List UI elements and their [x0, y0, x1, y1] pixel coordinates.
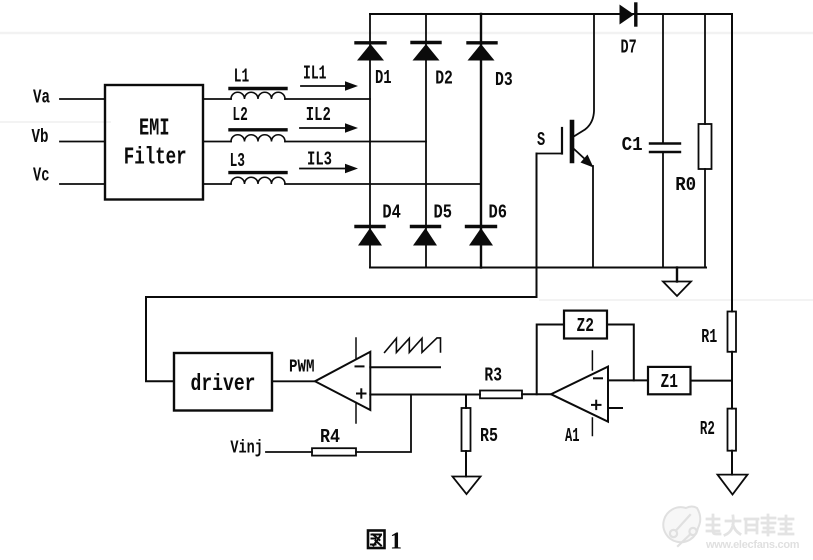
node Va	[33, 87, 50, 109]
diode D6	[467, 201, 508, 245]
diode D3	[468, 43, 513, 91]
wire Vb to EMI filter	[60, 141, 105, 143]
node PWM	[289, 358, 315, 378]
wire EMI to L2	[203, 141, 231, 143]
svg-text:driver: driver	[191, 371, 256, 397]
wire R3 to A1 output	[522, 393, 551, 395]
sawtooth waveform	[385, 338, 441, 353]
svg-text:R0: R0	[675, 174, 696, 196]
wire A1 inverting input to Z1	[608, 379, 648, 381]
svg-text:A1: A1	[565, 425, 580, 447]
svg-text:R4: R4	[320, 426, 340, 448]
wire right rail down to R1	[731, 14, 733, 312]
svg-text:D7: D7	[621, 36, 637, 58]
wire bridge leg 3	[480, 14, 482, 268]
svg-text:PWM: PWM	[289, 358, 315, 378]
wire L1 to bridge leg 1	[285, 98, 370, 100]
svg-text:Vinj: Vinj	[230, 439, 263, 459]
diode D2	[412, 43, 453, 90]
svg-text:D5: D5	[434, 201, 453, 223]
wire Va to EMI filter	[60, 98, 105, 100]
diode D5	[412, 201, 453, 245]
resistor R4	[312, 426, 356, 456]
svg-text:C1: C1	[622, 134, 643, 156]
node Vc	[33, 165, 50, 187]
svg-text:R3: R3	[484, 365, 502, 387]
driver block	[174, 353, 272, 411]
svg-text:EMI: EMI	[139, 116, 170, 143]
svg-text:D1: D1	[375, 67, 392, 89]
ground under bridge	[663, 268, 691, 297]
wire emitter to bottom rail	[592, 166, 594, 268]
svg-text:www.elecfans.com: www.elecfans.com	[705, 539, 800, 551]
ground under R2	[718, 475, 748, 495]
svg-text:Z2: Z2	[577, 315, 595, 337]
svg-text:IL1: IL1	[303, 63, 327, 85]
wire Vinj to R4	[266, 451, 312, 453]
resistor R5	[462, 395, 499, 477]
wire bottom rail	[370, 267, 706, 269]
svg-text:Va: Va	[33, 87, 50, 109]
svg-text:D2: D2	[435, 68, 453, 90]
resistor R2	[700, 409, 736, 451]
wire EMI to L1	[203, 98, 231, 100]
watermark text www.elecfans.com	[705, 539, 800, 551]
diode D4	[356, 201, 401, 245]
watermark logo elecfans	[663, 507, 700, 547]
svg-text:R5: R5	[480, 425, 498, 447]
wire A1 feedback up to Z2	[537, 325, 564, 395]
caption 图 1	[368, 529, 402, 555]
svg-text:L3: L3	[230, 150, 245, 172]
svg-text:L1: L1	[234, 65, 249, 87]
resistor R3	[480, 365, 522, 399]
svg-text:IL3: IL3	[307, 148, 332, 170]
node Vinj	[230, 439, 263, 459]
wire R4 to summing node	[356, 395, 411, 453]
op-amp A1	[551, 351, 622, 447]
svg-text:D3: D3	[495, 69, 513, 91]
wire bridge leg 2	[425, 14, 427, 268]
wire collector drop from top rail	[575, 14, 595, 136]
svg-text:Vc: Vc	[33, 165, 50, 187]
watermark text 电子发烧友	[707, 515, 793, 535]
wire L2 to bridge leg 2	[285, 141, 426, 143]
svg-text:R2: R2	[700, 418, 715, 440]
EMI filter block	[105, 85, 203, 200]
svg-text:IL2: IL2	[306, 104, 331, 126]
wire R1 to R2	[731, 352, 733, 409]
diode D7	[620, 4, 637, 58]
resistor R0	[675, 14, 711, 268]
svg-text:S: S	[537, 129, 545, 151]
wire driver output to comparator	[272, 380, 315, 382]
wire Z2 down to inverting input	[607, 325, 634, 381]
transistor S (IGBT)	[537, 122, 594, 168]
wire L3 to bridge leg 3	[285, 183, 481, 185]
svg-text:Vb: Vb	[32, 126, 49, 148]
diode D1	[356, 43, 392, 89]
wire top rail	[370, 13, 732, 15]
inductor L3	[230, 150, 286, 184]
svg-text:D4: D4	[382, 201, 401, 223]
resistor R1	[701, 312, 736, 352]
wire R2 to ground	[731, 451, 733, 475]
impedance Z2	[564, 311, 607, 339]
node Vb	[32, 126, 49, 148]
svg-text:R1: R1	[701, 326, 717, 348]
wire comparator inverting input	[370, 366, 440, 368]
wire Z1 to R1 R2 node	[691, 380, 733, 382]
wire comparator non-inverting line to R3	[370, 394, 480, 396]
impedance Z1	[648, 367, 691, 394]
capacitor C1	[622, 14, 680, 268]
svg-text:D6: D6	[489, 201, 508, 223]
svg-text:Z1: Z1	[661, 371, 679, 393]
wire gate drive from S down and left to driver	[146, 154, 537, 382]
inductor L2	[230, 104, 286, 142]
wire EMI to L3	[203, 183, 231, 185]
svg-text:1: 1	[390, 529, 402, 555]
svg-text:L2: L2	[232, 104, 247, 126]
wire bridge leg 1	[369, 14, 371, 268]
op-amp PWM comparator	[315, 338, 370, 423]
arrow IL2	[300, 104, 358, 133]
arrow IL1	[301, 63, 358, 91]
ground under R5	[453, 477, 481, 495]
inductor L1	[230, 65, 286, 99]
arrow IL3	[300, 148, 358, 173]
svg-text:Filter: Filter	[124, 145, 187, 172]
wire Vc to EMI filter	[60, 183, 105, 185]
